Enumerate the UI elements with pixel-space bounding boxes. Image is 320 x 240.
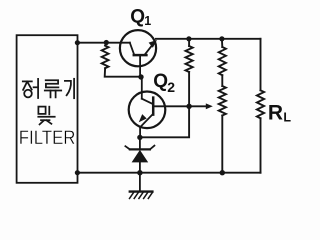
wire bottom rail <box>77 172 260 174</box>
svg-text:FILTER: FILTER <box>19 127 76 149</box>
box label 류 <box>45 80 61 97</box>
box label 기 <box>65 79 74 98</box>
box label 정 <box>23 79 38 98</box>
wire R1 bottom to collector node <box>105 68 141 77</box>
wire R2 bottom to node N1 <box>188 72 190 106</box>
node Q1 collector junction <box>138 74 143 79</box>
rectifier/filter box <box>17 35 78 183</box>
svg-text:Q: Q <box>130 7 145 28</box>
wire output rail <box>156 38 261 40</box>
svg-text:2: 2 <box>167 79 175 95</box>
wire N1 down and left to Q2 emitter node <box>140 106 189 137</box>
transistor Q1 <box>120 30 157 77</box>
load resistor RL <box>260 39 262 91</box>
node box output top <box>75 40 80 45</box>
resistor R1 <box>105 43 106 46</box>
potentiometer (divider) <box>221 39 223 47</box>
zener diode D1 <box>125 137 154 172</box>
node R2 top <box>186 36 191 41</box>
node N1 base/wiper junction <box>186 104 191 109</box>
ground <box>130 173 153 199</box>
potentiometer wiper arrow <box>189 105 207 107</box>
node pot bottom <box>220 170 225 175</box>
resistor R2 <box>188 39 190 46</box>
transistor Q2 <box>129 77 166 137</box>
node zener/ground on bottom rail <box>137 170 142 175</box>
svg-text:R: R <box>268 101 283 124</box>
wire input rail (box to Q1 base) <box>77 42 129 44</box>
node Q2 emitter junction <box>137 135 142 140</box>
svg-text:Q: Q <box>153 71 168 92</box>
svg-text:L: L <box>283 110 291 124</box>
node R1 top <box>104 40 109 45</box>
wire Q2 base to node N1 <box>153 105 189 107</box>
node box bottom return <box>75 170 80 175</box>
wire pot bottom to rail <box>221 116 223 173</box>
node potentiometer top <box>219 36 224 41</box>
svg-text:1: 1 <box>144 14 151 28</box>
box label 및 <box>38 107 54 125</box>
